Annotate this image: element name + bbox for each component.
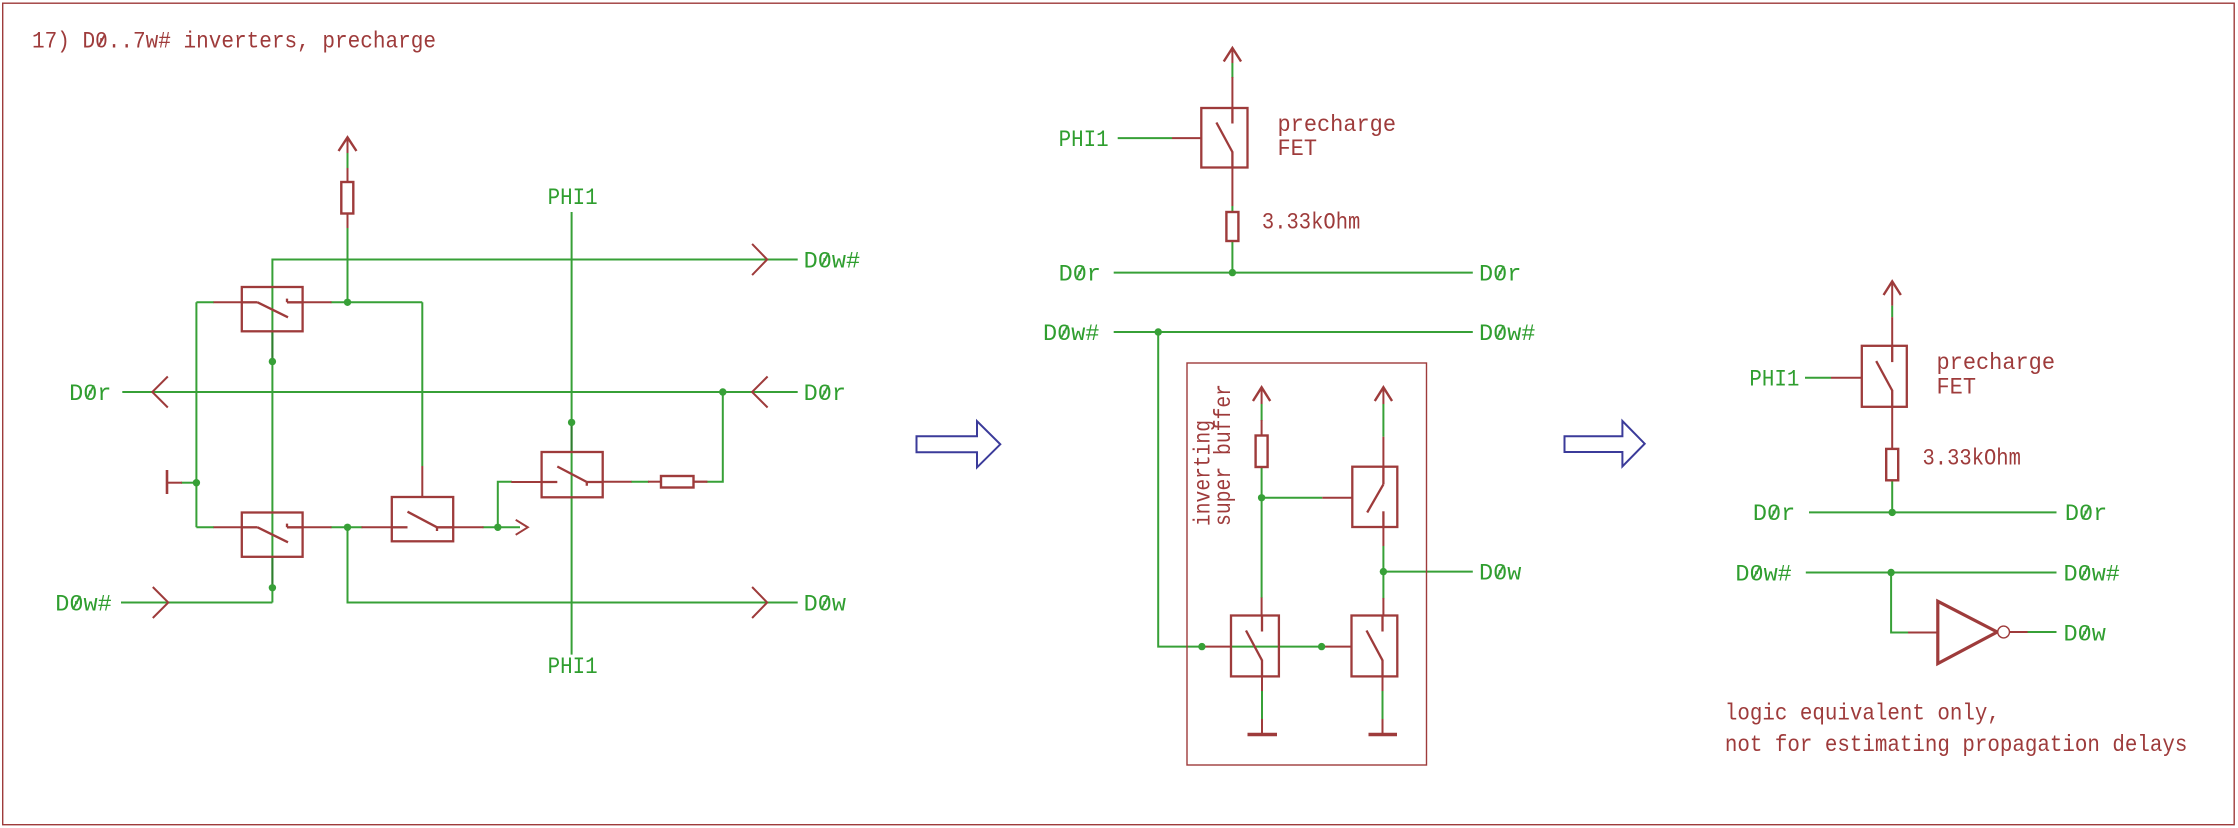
svg-text:FET: FET: [1937, 374, 1977, 400]
svg-text:precharge: precharge: [1937, 350, 2056, 376]
svg-text:D0w#: D0w#: [55, 591, 112, 617]
svg-text:super buffer: super buffer: [1211, 384, 1237, 526]
svg-text:PHI1: PHI1: [548, 185, 598, 211]
svg-text:PHI1: PHI1: [1749, 367, 1799, 393]
svg-text:D0w#: D0w#: [1043, 321, 1100, 347]
svg-text:PHI1: PHI1: [1059, 127, 1109, 153]
svg-text:precharge: precharge: [1278, 112, 1397, 138]
svg-text:not for estimating propagation: not for estimating propagation delays: [1725, 732, 2187, 758]
svg-text:D0w#: D0w#: [804, 248, 861, 274]
svg-text:D0w#: D0w#: [2064, 561, 2121, 587]
svg-text:PHI1: PHI1: [548, 654, 598, 680]
svg-text:D0w#: D0w#: [1735, 561, 1792, 587]
svg-text:3.33kOhm: 3.33kOhm: [1923, 446, 2021, 472]
svg-text:D0w#: D0w#: [1479, 321, 1536, 347]
svg-text:FET: FET: [1278, 136, 1318, 162]
svg-text:logic equivalent only,: logic equivalent only,: [1725, 700, 2000, 726]
svg-text:17) D0..7w# inverters, prechar: 17) D0..7w# inverters, precharge: [32, 29, 436, 55]
svg-text:3.33kOhm: 3.33kOhm: [1262, 210, 1360, 236]
